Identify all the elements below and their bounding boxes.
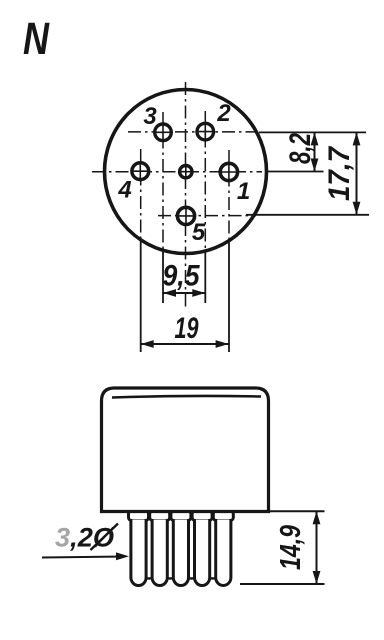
- svg-text:1: 1: [237, 178, 250, 205]
- side view pins back row: [140, 512, 223, 579]
- extension line middle row right: [266, 171, 324, 173]
- dimension line 14,9: [316, 511, 318, 584]
- dimension line 9,5: [163, 292, 205, 294]
- leader line 3,2 dia: [42, 557, 124, 558]
- pin 3 crosshair: [156, 125, 171, 140]
- pin 2 crosshair: [198, 124, 213, 139]
- extension line pin bottom right: [240, 583, 325, 585]
- pin 1: [220, 163, 237, 180]
- pin 4: [132, 163, 149, 180]
- base outline circle (top view): [105, 90, 267, 254]
- svg-text:N: N: [23, 13, 50, 64]
- back pin b2: [161, 512, 180, 521]
- extension line body bottom right: [270, 510, 325, 512]
- extension line pin5 row right: [246, 214, 369, 216]
- svg-text:2: 2: [216, 100, 231, 127]
- dimension line 8,2: [314, 132, 316, 171]
- center line vertical pin 3: [162, 112, 164, 252]
- back pin b4: [203, 512, 222, 521]
- extension line pin2 x below circle: [204, 252, 206, 303]
- diameter slash extension: [91, 524, 119, 551]
- svg-text:3: 3: [143, 103, 157, 130]
- extension line top row right: [259, 131, 366, 133]
- front pin f4: [192, 511, 212, 521]
- extension line pin1 x below circle: [228, 240, 230, 352]
- center line horizontal pin 5: [158, 215, 256, 217]
- dimension line 17,7: [356, 132, 358, 214]
- pin 1 crosshair: [221, 164, 236, 179]
- pin 3: [155, 124, 172, 141]
- svg-text:4: 4: [117, 177, 131, 204]
- front pin f3: [171, 511, 191, 521]
- front pin f2: [150, 511, 170, 521]
- back pin b3: [182, 512, 201, 521]
- svg-text:9,5: 9,5: [163, 260, 201, 293]
- side view pins front row: [129, 511, 234, 586]
- center spigot: [180, 166, 192, 178]
- pin 5: [177, 207, 194, 224]
- extension line pin3 x below circle: [162, 252, 164, 303]
- center line horizontal (through pins 4, center, 1): [92, 171, 262, 173]
- center line horizontal top row (through pins 3 and 2): [128, 131, 257, 133]
- center line vertical pin 2: [204, 111, 206, 252]
- svg-text:14,9: 14,9: [275, 525, 307, 570]
- pin 4 crosshair: [133, 164, 148, 179]
- back pin b1: [140, 512, 159, 521]
- body outline (side view): [102, 388, 269, 512]
- center line vertical pin 4: [140, 149, 142, 240]
- svg-text:5: 5: [192, 219, 206, 246]
- center line vertical (through center pin and pin 5): [185, 82, 187, 310]
- front pin f1: [129, 511, 149, 521]
- pin 5 crosshair: [178, 208, 193, 223]
- front pin f5: [213, 511, 233, 521]
- body cover seam line: [112, 396, 261, 398]
- dimension line 19: [141, 343, 229, 345]
- svg-text:19: 19: [175, 312, 199, 345]
- pin 2: [197, 123, 214, 140]
- center spigot crosshair: [180, 166, 191, 177]
- center line vertical pin 1: [228, 150, 230, 240]
- svg-text:17,7: 17,7: [323, 146, 356, 201]
- extension line pin4 x below circle: [140, 240, 142, 352]
- svg-text:3,2Ø: 3,2Ø: [55, 523, 115, 553]
- svg-text:8,2: 8,2: [284, 133, 317, 164]
